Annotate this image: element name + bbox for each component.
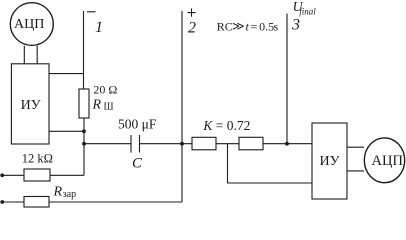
svg-text:АЦП: АЦП — [372, 153, 404, 169]
svg-text:R: R — [92, 98, 102, 113]
svg-text:2: 2 — [188, 20, 196, 37]
svg-text:1: 1 — [95, 19, 103, 36]
svg-text:RC: RC — [217, 19, 233, 33]
svg-text:12 kΩ: 12 kΩ — [22, 152, 53, 166]
svg-text:s: s — [274, 19, 279, 33]
svg-text:3: 3 — [291, 17, 300, 34]
svg-text:≫: ≫ — [232, 19, 245, 33]
svg-text:C: C — [132, 156, 143, 172]
svg-text:АЦП: АЦП — [14, 17, 44, 32]
svg-text:ИУ: ИУ — [320, 154, 340, 169]
svg-text:Ш: Ш — [104, 102, 114, 113]
svg-text:R: R — [53, 185, 63, 200]
svg-text:ИУ: ИУ — [21, 98, 41, 113]
svg-text:500 μF: 500 μF — [118, 117, 157, 132]
svg-text:K = 0.72: K = 0.72 — [202, 118, 250, 133]
svg-text:final: final — [299, 7, 316, 17]
svg-text:20 Ω: 20 Ω — [93, 83, 117, 97]
svg-text:0.5: 0.5 — [259, 19, 274, 33]
svg-text:зар: зар — [63, 189, 76, 200]
svg-text:=: = — [251, 19, 258, 33]
